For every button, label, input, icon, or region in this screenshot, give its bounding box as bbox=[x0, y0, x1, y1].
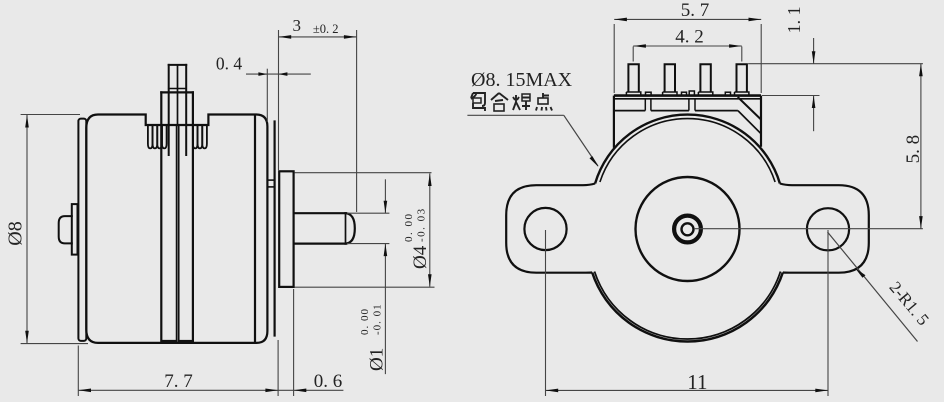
svg-text:1. 1: 1. 1 bbox=[784, 6, 804, 33]
svg-text:4. 2: 4. 2 bbox=[675, 27, 704, 48]
svg-text:0. 6: 0. 6 bbox=[314, 371, 343, 392]
svg-text:5. 8: 5. 8 bbox=[903, 135, 924, 164]
svg-text:Ø8: Ø8 bbox=[5, 221, 27, 245]
svg-text:Ø8. 15MAX: Ø8. 15MAX bbox=[471, 69, 573, 91]
svg-text:±0. 2: ±0. 2 bbox=[313, 22, 339, 36]
svg-text:5. 7: 5. 7 bbox=[681, 0, 710, 21]
svg-text:Ø1: Ø1 bbox=[367, 348, 388, 371]
svg-text:Ø4: Ø4 bbox=[410, 245, 431, 269]
svg-text:0. 00: 0. 00 bbox=[359, 308, 371, 335]
svg-text:-0. 03: -0. 03 bbox=[416, 207, 428, 242]
svg-text:3: 3 bbox=[293, 16, 302, 35]
svg-text:0. 4: 0. 4 bbox=[216, 54, 243, 74]
svg-text:11: 11 bbox=[687, 370, 707, 394]
svg-text:0. 00: 0. 00 bbox=[403, 213, 415, 243]
svg-text:-0. 01: -0. 01 bbox=[372, 303, 384, 335]
svg-text:7. 7: 7. 7 bbox=[164, 371, 193, 392]
